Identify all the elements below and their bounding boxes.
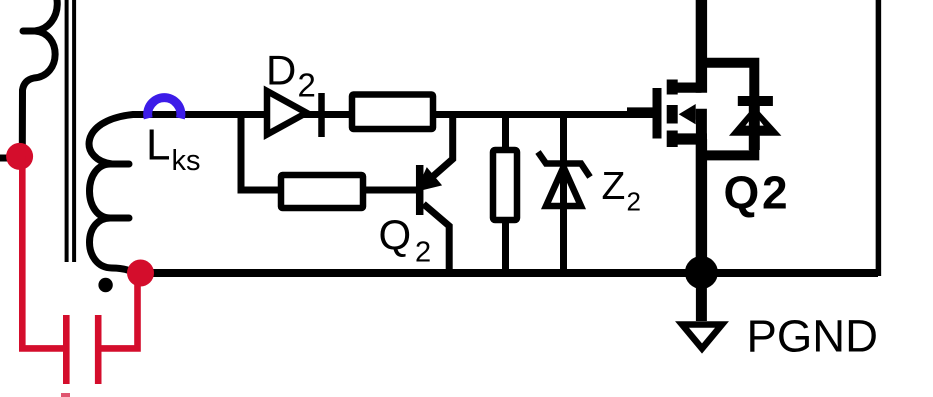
mosfet drain lead: [672, 82, 701, 92]
wire top rail: [150, 111, 630, 118]
mosfet source lead: [672, 133, 707, 144]
wire primary left stub: [0, 155, 20, 162]
wire resistor2 vertical: [502, 115, 509, 274]
diode D2: [267, 91, 322, 137]
svg-text:PGND: PGND: [747, 311, 878, 362]
mosfet body/source connection: [696, 114, 702, 139]
phase dot: [98, 278, 112, 292]
zener diode Z2: [538, 152, 590, 206]
wire to ground: [696, 273, 707, 322]
resistor R-lower: [281, 175, 363, 208]
red mark bottom edge: [61, 393, 70, 397]
body diode cathode bar: [738, 96, 773, 106]
svg-text:2: 2: [627, 187, 641, 217]
svg-text:2: 2: [415, 236, 431, 268]
node primary junction (red): [6, 143, 33, 170]
svg-text:2: 2: [762, 167, 788, 219]
resistor R-top: [352, 95, 433, 130]
transformer secondary winding Lks: [89, 115, 157, 274]
body diode loop wire: [700, 63, 754, 156]
svg-text:Q: Q: [724, 167, 760, 219]
capacitor left plate (red): [63, 315, 70, 384]
wire red capacitor right lead: [98, 273, 137, 348]
svg-text:Z: Z: [602, 165, 626, 208]
wire red capacitor left lead: [22, 156, 66, 348]
wire branch to lower path: [241, 115, 281, 191]
transformer core: [67, 0, 75, 262]
wire right vertical: [876, 0, 882, 276]
wire bottom rail: [140, 269, 878, 277]
node secondary junction (red): [127, 260, 154, 287]
inductance Lks highlight arc (blue): [148, 98, 181, 119]
capacitor right plate (red): [95, 315, 102, 384]
mosfet drain vertical: [696, 0, 707, 93]
mosfet source vertical: [696, 139, 707, 273]
svg-text:ks: ks: [172, 145, 201, 177]
resistor R2 vertical: [493, 150, 517, 220]
mosfet Q2 gate lead: [627, 107, 657, 118]
svg-text:Q: Q: [379, 211, 412, 258]
svg-text:D: D: [266, 46, 296, 93]
node PGND junction: [685, 256, 718, 289]
body diode triangle: [729, 106, 781, 136]
wire base lead: [363, 187, 416, 194]
transistor Q2 (PNP): [419, 114, 453, 273]
svg-text:2: 2: [298, 66, 316, 103]
ground symbol: [682, 325, 722, 349]
mosfet gate bar: [653, 88, 662, 139]
mosfet body arrow: [679, 104, 696, 124]
svg-text:L: L: [146, 121, 170, 170]
mosfet channel stubs: [667, 80, 678, 148]
transformer primary winding: [22, 0, 57, 150]
wire zener vertical: [560, 115, 567, 274]
